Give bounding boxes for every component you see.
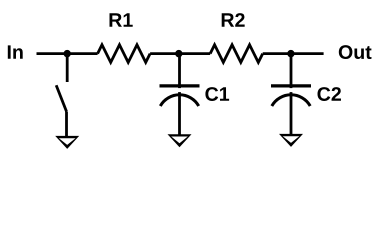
ground G1 (switch) <box>55 136 79 149</box>
label R2 <box>222 13 245 27</box>
wire node C down to C2 <box>290 54 293 89</box>
wire R2 to node C and output <box>263 52 324 55</box>
ground G3 (C2) <box>279 134 303 147</box>
wire input to node A <box>37 52 98 55</box>
wire switch to ground <box>65 112 68 138</box>
label C2 <box>318 87 341 101</box>
resistor R1 <box>98 45 151 63</box>
switch S1 vertical stub from node A <box>66 54 69 82</box>
label Out <box>339 45 372 59</box>
wire R1 to R2 <box>150 52 210 55</box>
label R1 <box>110 13 133 26</box>
capacitor C1 top plate <box>160 84 200 87</box>
label C1 <box>205 87 229 101</box>
label In <box>8 45 23 58</box>
capacitor C2 curved bottom plate <box>272 95 310 106</box>
resistor R2 <box>210 45 263 63</box>
wire C2 to ground <box>290 92 293 135</box>
wire node B down to C1 <box>178 54 181 89</box>
ground G2 (C1) <box>168 134 192 147</box>
node C junction dot <box>287 50 294 57</box>
node B junction dot <box>175 50 182 57</box>
capacitor C1 curved bottom plate <box>160 95 198 106</box>
capacitor C2 top plate <box>271 84 311 87</box>
node A junction dot <box>63 50 70 57</box>
wire C1 to ground <box>178 92 181 135</box>
switch S1 blade (open) <box>56 85 66 111</box>
